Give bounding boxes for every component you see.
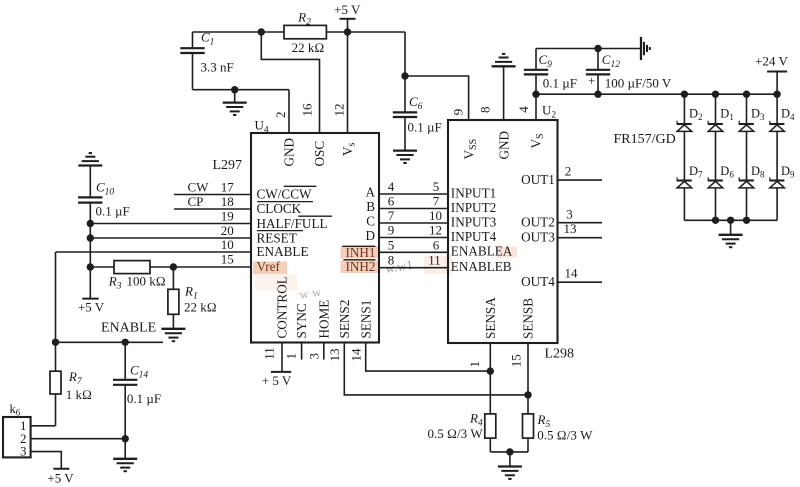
connector k6 body	[3, 417, 31, 457]
svg-text:B: B	[366, 199, 375, 214]
svg-text:HOME: HOME	[316, 300, 331, 339]
svg-text:FR157/GD: FR157/GD	[614, 132, 676, 147]
svg-text:5: 5	[433, 179, 440, 194]
wire SYNC pin 1 stub	[301, 343, 303, 360]
svg-text:+5 V: +5 V	[78, 300, 105, 315]
wire OUT1 pin 2 stub	[558, 179, 603, 181]
wire pin 10 ENABLE	[56, 251, 252, 253]
svg-text:INH1: INH1	[345, 245, 375, 260]
power +24V	[755, 54, 788, 95]
pin CONTROL label	[275, 276, 290, 338]
svg-text:13: 13	[327, 349, 342, 362]
ground below R1	[161, 329, 185, 341]
svg-text:2: 2	[273, 112, 288, 119]
svg-text:C: C	[366, 213, 375, 228]
wire CONTROL pin 11 stub	[281, 343, 283, 372]
pin VS label U2	[529, 133, 547, 148]
svg-text:HALF/FULL: HALF/FULL	[257, 216, 328, 231]
node VS rail junction	[532, 91, 539, 98]
pin number 8	[477, 107, 492, 114]
svg-text:6: 6	[388, 194, 395, 209]
wire ENABLE net horizontal	[56, 341, 164, 343]
svg-text:2: 2	[565, 164, 572, 179]
svg-text:INPUT1: INPUT1	[451, 185, 496, 200]
wire pin 15 Vref	[90, 266, 251, 268]
svg-text:ENABLEA: ENABLEA	[451, 244, 513, 259]
svg-text:15: 15	[221, 252, 234, 267]
diode D3	[739, 107, 765, 132]
node Vs/+5V junction	[344, 28, 351, 35]
pin number 15	[508, 354, 523, 367]
pin SENS2 label	[337, 300, 352, 339]
node D8 bottom junction	[743, 217, 750, 224]
svg-text:OUT4: OUT4	[521, 274, 555, 289]
svg-text:8: 8	[477, 107, 492, 114]
svg-text:100 kΩ: 100 kΩ	[127, 273, 166, 288]
ground right of C12	[641, 37, 650, 60]
svg-text:D: D	[365, 228, 375, 243]
power +5V top	[334, 2, 361, 32]
svg-text:0.1 µF: 0.1 µF	[96, 204, 130, 219]
svg-text:0.1 µF: 0.1 µF	[127, 391, 161, 406]
pin CLOCK label	[257, 201, 333, 216]
wire to VSS pin 9 of U2	[405, 76, 469, 120]
svg-text:SENSB: SENSB	[521, 298, 536, 339]
capacitor C9 0.1uF	[524, 49, 577, 95]
svg-text:22 kΩ: 22 kΩ	[184, 300, 217, 315]
svg-text:3.3 nF: 3.3 nF	[201, 60, 234, 75]
svg-text:L298: L298	[545, 347, 575, 362]
wire C1 bottom to GND pin2 of U4	[193, 89, 290, 91]
wire OUT2 pin 3 stub	[558, 222, 603, 224]
pin number 9	[450, 109, 465, 116]
node SENSB junction	[524, 391, 531, 398]
wire top rail corner down to C6	[404, 32, 406, 76]
svg-text:14: 14	[565, 266, 579, 281]
svg-text:9: 9	[388, 223, 395, 238]
wire k6 pin3 to +5V	[31, 452, 62, 469]
wire C9/C12 top link	[536, 48, 641, 50]
pin CW/CCW label	[257, 186, 317, 201]
wire OUT3 pin 13 stub	[558, 237, 603, 239]
wire Vs pin 12 stub	[347, 32, 349, 133]
pin SYNC label	[294, 303, 309, 338]
power +5V bottom left	[47, 469, 74, 486]
svg-text:CONTROL: CONTROL	[275, 276, 290, 338]
svg-text:16: 16	[300, 103, 315, 117]
svg-text:7: 7	[433, 194, 440, 209]
svg-text:13: 13	[564, 221, 577, 236]
svg-text:CP: CP	[188, 194, 204, 209]
svg-text:GND: GND	[282, 138, 297, 167]
ground below C14	[113, 459, 137, 471]
svg-text:3: 3	[20, 444, 27, 459]
wire diode bottom rail	[684, 219, 777, 221]
pin number 2	[273, 112, 288, 119]
wire SENS1 pin 14 to SENSA	[366, 343, 491, 372]
capacitor C10 0.1uF	[78, 166, 130, 299]
node C12 rail junction	[594, 91, 601, 98]
node R3/R1 junction	[170, 263, 177, 270]
resistor R3 100k	[108, 261, 166, 292]
svg-text:10: 10	[221, 237, 234, 252]
ground below C1 node	[223, 90, 247, 115]
svg-text:+5 V: +5 V	[47, 471, 74, 486]
ground above GND pin 8	[492, 54, 516, 66]
diode D2	[677, 107, 702, 132]
wire pin 17 CW/CCW	[174, 194, 251, 196]
pin HALF/FULL label	[257, 216, 328, 231]
svg-text:19: 19	[221, 209, 234, 224]
pin number 11	[262, 347, 277, 360]
wire R4 R5 bottom link	[490, 451, 528, 453]
wire INH1 to ENABLEA	[379, 251, 448, 253]
pin Vs label U4	[340, 142, 358, 156]
wire HOME pin 3 stub	[323, 343, 325, 360]
wire k6 pin1 to R7	[31, 425, 56, 427]
pin number 13	[327, 349, 342, 362]
pin GND label U4	[282, 138, 297, 167]
wire C to INPUT3	[379, 222, 448, 224]
diode D8	[739, 164, 765, 188]
diode D9	[770, 164, 795, 188]
capacitor C12 100uF electrolytic	[586, 49, 672, 95]
svg-text:4: 4	[516, 106, 531, 113]
svg-text:8: 8	[388, 253, 395, 268]
ground above C10	[78, 153, 102, 165]
pin SENSB label	[521, 298, 536, 339]
pin number 1	[284, 353, 299, 360]
wire diode column 2	[715, 94, 717, 220]
wire SENSA pin 1 down	[489, 343, 491, 414]
wire SENS2 pin 13 to SENSB	[344, 343, 528, 395]
op-amp U4 L297 chip body	[251, 133, 379, 343]
pin number 1	[467, 361, 482, 368]
svg-text:+: +	[588, 73, 595, 88]
resistor R2 22k	[284, 10, 326, 55]
diode D6	[708, 164, 734, 188]
power +5V below CONTROL	[262, 372, 292, 388]
op-amp U2 L298 chip body	[448, 120, 558, 343]
svg-text:L297: L297	[213, 158, 243, 173]
node D3 rail junction	[743, 91, 750, 98]
svg-text:OUT3: OUT3	[521, 229, 555, 244]
wire diode column 4	[776, 94, 778, 220]
svg-text:9: 9	[450, 109, 465, 116]
svg-text:14: 14	[349, 348, 364, 362]
svg-text:0.1 µF: 0.1 µF	[408, 120, 442, 135]
wire GND pin 8 stub	[503, 66, 505, 120]
pin number 16	[300, 103, 315, 117]
node pin20 junction	[87, 234, 94, 241]
wire SENSB pin 15 down	[527, 343, 529, 414]
svg-text:7: 7	[388, 208, 395, 223]
pin number 12	[332, 104, 347, 117]
pin SENSA label	[483, 297, 498, 339]
svg-text:5: 5	[388, 237, 395, 252]
svg-text:100 µF/50 V: 100 µF/50 V	[605, 76, 672, 91]
pin SENS1 label	[358, 300, 373, 339]
wire diode column 3	[746, 94, 748, 220]
svg-text:1: 1	[467, 361, 482, 368]
wire OSC pin 16 link	[261, 32, 319, 133]
svg-text:+ 5 V: + 5 V	[262, 373, 292, 388]
pin number 4	[516, 106, 531, 113]
svg-text:1 kΩ: 1 kΩ	[66, 387, 92, 402]
wire INH2 to ENABLEB	[379, 267, 448, 269]
node C14/k6 pin2 junction	[122, 435, 129, 442]
diode D4	[770, 107, 795, 132]
svg-text:20: 20	[221, 223, 234, 238]
svg-text:Vref: Vref	[257, 259, 281, 274]
pin number 3	[307, 353, 322, 360]
wire pin 20 RESET	[90, 237, 251, 239]
svg-text:12: 12	[429, 223, 442, 238]
svg-text:0.1 µF: 0.1 µF	[543, 76, 577, 91]
node ENABLE/C14 junction	[122, 339, 129, 346]
svg-text:CW: CW	[188, 179, 210, 194]
node Vref/R3 junction	[87, 263, 94, 270]
node ground bottom junction	[727, 217, 734, 224]
node D4 rail junction	[773, 91, 780, 98]
node C1/ground junction	[231, 86, 238, 93]
wire top rail from C1 to C6 corner	[193, 31, 406, 33]
wire OUT4 pin 14 stub	[558, 281, 603, 283]
svg-text:11: 11	[262, 347, 277, 360]
svg-text:SENS2: SENS2	[337, 300, 352, 339]
wire ENABLE net vertical	[55, 252, 57, 342]
svg-text:0.5 Ω/3 W: 0.5 Ω/3 W	[428, 426, 484, 441]
pin INH1 label	[342, 245, 375, 260]
svg-text:INPUT2: INPUT2	[451, 200, 496, 215]
pin number 14	[349, 348, 364, 362]
node C12 top junction	[594, 45, 601, 52]
node D6 bottom junction	[712, 217, 719, 224]
svg-text:INPUT3: INPUT3	[451, 214, 497, 229]
diode D1	[708, 107, 734, 132]
node sense ground junction	[506, 448, 513, 455]
resistor R5 0.5 ohm	[523, 412, 594, 452]
svg-text:4: 4	[388, 179, 395, 194]
svg-text:SENS1: SENS1	[358, 300, 373, 339]
node ENABLE/R7 junction	[52, 339, 59, 346]
wire A to INPUT1	[379, 193, 448, 195]
svg-text:A: A	[365, 184, 375, 199]
svg-text:GND: GND	[496, 131, 511, 160]
svg-text:+24 V: +24 V	[755, 54, 788, 69]
svg-text:6: 6	[433, 237, 440, 252]
svg-text:18: 18	[221, 194, 234, 209]
svg-text:22 kΩ: 22 kΩ	[292, 40, 325, 55]
wire pin 18 CLOCK	[174, 208, 251, 210]
node D1 rail junction	[712, 91, 719, 98]
ground below sense resistors	[498, 452, 522, 479]
svg-text:12: 12	[332, 104, 347, 117]
svg-text:CW/CCW: CW/CCW	[257, 187, 312, 202]
pin GND label U2	[496, 131, 511, 160]
power +5V left	[78, 299, 105, 315]
svg-text:11: 11	[428, 253, 441, 268]
pin HOME label	[316, 300, 331, 339]
ground below diode array	[719, 220, 743, 247]
capacitor C14 0.1uF	[113, 342, 161, 459]
diode D7	[677, 164, 703, 188]
wire diode column 1	[683, 94, 685, 220]
wire k6 pin2 to C14	[31, 438, 126, 440]
svg-text:ENABLE: ENABLE	[257, 244, 309, 259]
capacitor C1 3.3nF	[180, 30, 233, 90]
svg-text:CLOCK: CLOCK	[257, 201, 302, 216]
svg-text:ENABLEB: ENABLEB	[451, 259, 512, 274]
svg-text:+5 V: +5 V	[334, 2, 361, 17]
wire GND pin 2 stub	[288, 90, 290, 133]
svg-text:OUT2: OUT2	[521, 215, 555, 230]
ground below C6	[393, 151, 417, 163]
svg-text:OUT1: OUT1	[521, 172, 555, 187]
svg-text:0.5 Ω/3 W: 0.5 Ω/3 W	[537, 428, 593, 443]
svg-text:10: 10	[429, 208, 442, 223]
svg-text:1: 1	[284, 353, 299, 360]
svg-text:SYNC: SYNC	[294, 303, 309, 338]
svg-text:17: 17	[221, 180, 235, 195]
svg-text:3: 3	[307, 353, 322, 360]
node C6/VSS junction	[401, 72, 408, 79]
resistor R7 1k	[50, 342, 92, 426]
wire B to INPUT2	[379, 208, 448, 210]
capacitor C6 0.1uF	[393, 76, 442, 151]
wire D to INPUT4	[379, 237, 448, 239]
svg-text:3: 3	[566, 206, 573, 221]
watermark highlight patches	[253, 246, 517, 302]
pin VSS label U2	[461, 139, 479, 160]
wire VS pin 4 stub	[535, 94, 537, 120]
node D2 rail junction	[681, 91, 688, 98]
resistor R1 22k	[168, 267, 217, 329]
svg-text:INPUT4: INPUT4	[451, 229, 497, 244]
svg-text:ENABLE: ENABLE	[101, 320, 156, 335]
svg-text:OSC: OSC	[312, 141, 327, 167]
node pin19 junction	[87, 220, 94, 227]
svg-text:SENSA: SENSA	[483, 297, 498, 339]
svg-text:INH2: INH2	[345, 259, 375, 274]
node OSC branch on top rail	[258, 28, 265, 35]
wire pin 19 HALF/FULL	[90, 223, 251, 225]
node SENSA junction	[487, 367, 494, 374]
pin OSC label U4	[312, 141, 327, 167]
svg-text:15: 15	[508, 354, 523, 367]
resistor R4 0.5 ohm	[428, 410, 496, 452]
wire +24V power rail	[536, 93, 777, 95]
